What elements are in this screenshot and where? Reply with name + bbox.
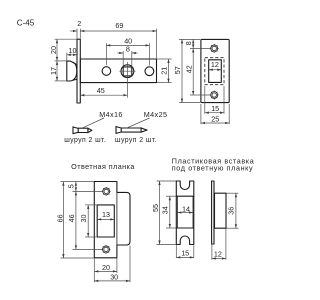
faceplate extension lines: [179, 39, 211, 102]
dimension 8 (top to screw): [184, 40, 193, 49]
svg-text:M4x16: M4x16: [99, 110, 123, 119]
dimension 40 (hole spacing): [106, 37, 149, 66]
insert side view thin bar: [212, 181, 214, 244]
dimension 30 (strike width): [94, 273, 129, 282]
svg-text:42: 42: [184, 65, 193, 73]
screw M4x16: [73, 127, 92, 134]
dimension 34 (middle height): [161, 196, 170, 228]
caption screw 1: [64, 137, 106, 144]
svg-text:8: 8: [184, 41, 193, 45]
dimension 14 (middle width): [178, 204, 194, 213]
strike bottom extension lines: [94, 246, 130, 283]
dimension 21 (arm height): [157, 59, 172, 83]
dimension 20: [49, 39, 58, 61]
dimension 2 (faceplate thickness): [70, 19, 81, 31]
svg-text:12: 12: [211, 60, 219, 69]
dimension 55 (insert height): [151, 181, 160, 244]
dimension 13 (hole width): [97, 210, 114, 219]
svg-text:20: 20: [102, 263, 110, 272]
follower hub circle: [121, 65, 134, 78]
dimension 15 (opening width): [205, 86, 224, 114]
svg-text:14: 14: [182, 204, 190, 213]
svg-text:20: 20: [49, 46, 58, 54]
insert bottom extension lines: [176, 245, 194, 258]
svg-text:17: 17: [49, 67, 58, 75]
hole right circle: [145, 67, 154, 76]
faceplate screw hole bottom: [210, 91, 219, 100]
strike screw hole bottom: [102, 245, 111, 254]
follower center lines: [119, 62, 135, 98]
dimension 57 (faceplate height): [173, 40, 182, 103]
title plastic insert line 1: [172, 156, 255, 165]
insert front view outline: [176, 181, 194, 245]
latch faceplate side view bar: [77, 39, 80, 103]
title strike plate: [71, 162, 135, 171]
svg-text:30: 30: [79, 215, 88, 223]
dimension 69 (body length): [80, 21, 156, 31]
dimension 45: [80, 86, 127, 95]
latch bolt: [67, 61, 77, 81]
svg-text:15: 15: [211, 104, 219, 113]
svg-text:45: 45: [97, 86, 105, 95]
faceplate latch hole 12mm: [209, 60, 222, 83]
extension lines top: [77, 29, 157, 59]
svg-text:15: 15: [181, 248, 189, 257]
screw M4x25: [116, 126, 147, 133]
dimension 42 (screw spacing): [184, 49, 193, 95]
svg-text:5: 5: [66, 184, 75, 188]
leader M4x25: [127, 110, 167, 128]
faceplate hidden latch opening (dashed): [205, 58, 224, 85]
svg-text:под ответную планку: под ответную планку: [172, 163, 253, 172]
insert left extension lines: [157, 181, 176, 245]
svg-text:C-45: C-45: [17, 18, 35, 27]
svg-text:2: 2: [77, 19, 81, 28]
strike screw hole top: [102, 187, 111, 196]
svg-text:13: 13: [102, 210, 110, 219]
svg-text:M4x25: M4x25: [144, 110, 168, 119]
svg-text:Ответная планка: Ответная планка: [71, 162, 135, 171]
faceplate screw hole top: [210, 44, 219, 53]
svg-text:34: 34: [161, 206, 170, 214]
dimension 20: [94, 263, 116, 272]
dimension 17 (bolt height): [49, 61, 58, 81]
caption screw 2: [115, 137, 157, 144]
dimension 8 (square hole): [117, 45, 137, 67]
svg-text:12: 12: [214, 250, 222, 259]
faceplate front view plate: [201, 39, 229, 102]
svg-text:36: 36: [227, 207, 236, 215]
insert middle section lines: [176, 196, 194, 228]
svg-text:25: 25: [211, 115, 219, 124]
insert side extension lines: [212, 193, 239, 260]
insert side view boss: [215, 193, 227, 228]
strike plate outline: [94, 182, 130, 258]
svg-text:55: 55: [151, 204, 160, 212]
svg-text:57: 57: [173, 66, 182, 74]
title plastic insert line 2: [172, 163, 253, 172]
dimension 25 (faceplate width): [201, 104, 229, 124]
svg-text:66: 66: [56, 214, 65, 222]
svg-text:21: 21: [160, 67, 169, 75]
dimension 66 (strike height): [56, 182, 65, 258]
svg-text:шуруп 2 шт.: шуруп 2 шт.: [115, 137, 157, 144]
dimension 15 (insert width): [176, 248, 193, 257]
label C-45: [17, 18, 35, 27]
dimension 12 (hole width): [209, 60, 221, 70]
dimension 12 (insert depth): [212, 250, 226, 259]
strike extension lines: [61, 182, 103, 258]
dimension 36 (boss height): [227, 193, 236, 228]
strike plate latch hole: [97, 205, 114, 237]
leader M4x16: [83, 110, 123, 128]
svg-text:шуруп 2 шт.: шуруп 2 шт.: [64, 137, 106, 144]
svg-text:10: 10: [69, 46, 77, 55]
svg-text:8: 8: [126, 45, 130, 54]
follower square hole 8mm: [123, 67, 132, 76]
svg-text:30: 30: [110, 273, 118, 282]
dimension 5: [66, 182, 76, 192]
dimension 30 (hole height): [79, 205, 88, 237]
dimension 46 (screw spacing): [67, 192, 76, 250]
svg-text:69: 69: [115, 21, 123, 30]
dimension 10 (bolt depth): [67, 46, 77, 61]
hole left circle: [102, 67, 111, 76]
extension lines left: [55, 39, 77, 81]
strike plate bend line: [116, 192, 118, 245]
svg-text:46: 46: [67, 214, 76, 222]
latch body arm: [80, 59, 156, 83]
